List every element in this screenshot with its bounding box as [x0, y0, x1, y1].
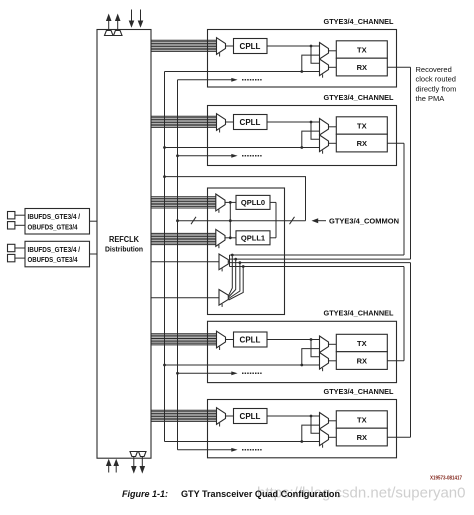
wire: CH4 TX mux output	[329, 420, 337, 422]
block: QPLL1	[236, 231, 270, 245]
svg-text:CPLL: CPLL	[240, 412, 261, 421]
CH1 RX mux select stub	[322, 74, 324, 77]
wire: CH1 internal clock arrow (solid)	[178, 79, 232, 81]
mux: upper clock distribution mux	[219, 254, 228, 270]
node: QPLL vertical to common return junction	[163, 175, 166, 178]
CH2 box	[208, 106, 397, 166]
svg-text:CPLL: CPLL	[240, 335, 261, 344]
wire: CH3 RX mux output	[329, 360, 337, 362]
svg-text:TX: TX	[357, 415, 367, 424]
mux: CH4 RX clock mux	[320, 429, 329, 446]
wire: clock line to CH3 RX (recovered clock)	[230, 266, 405, 268]
block: CH3 CPLL	[234, 332, 268, 347]
wire: CH3 TX mux output	[329, 343, 337, 345]
svg-text:GTYE3/4_CHANNEL: GTYE3/4_CHANNEL	[324, 387, 394, 396]
channel block CH4	[151, 387, 397, 458]
svg-text:CPLL: CPLL	[240, 42, 261, 51]
block: CH3 TX	[336, 334, 387, 351]
buffer: northbound refclk driver 2	[114, 31, 123, 36]
wire: CH2 internal clock arrow (solid)	[178, 155, 232, 157]
block: CH4 CPLL	[234, 409, 268, 424]
buffer: northbound refclk driver 1	[105, 31, 114, 36]
mux: CH1 RX clock mux	[320, 59, 329, 76]
svg-text:GTYE3/4_CHANNEL: GTYE3/4_CHANNEL	[324, 17, 394, 26]
CH4 CPLL mux select stub	[219, 423, 221, 426]
CH3 box	[208, 321, 397, 382]
wire: CH2 TX mux output	[329, 126, 337, 128]
mux: CH1 CPLL reference clock mux	[217, 38, 226, 55]
wire: CH3 CPLL branch down to RX mux	[311, 340, 320, 357]
svg-text:directly from: directly from	[416, 84, 457, 93]
upper distribution mux select stub	[221, 268, 223, 271]
node: CH1 QPLL clock junction	[300, 70, 303, 73]
svg-text:RX: RX	[357, 139, 367, 148]
wire: clock line to CH2 RX (recovered clock)	[230, 254, 405, 256]
wire: QPLL0 refclk bus (7 lines)	[151, 197, 216, 208]
wire: QPLL clock distribution vertical (feeds all channel QPLL inputs)	[164, 72, 166, 442]
svg-text:GTYE3/4_COMMON: GTYE3/4_COMMON	[329, 217, 399, 226]
mux: CH2 RX clock mux	[320, 135, 329, 152]
wire: CH4 CPLL refclk bus (7 lines)	[151, 410, 217, 421]
arrow: southbound refclk in 2	[140, 10, 142, 22]
wire: clock line to CH4 RX (recovered clock)	[230, 262, 411, 264]
pad: refclk pin 2b	[8, 254, 15, 261]
wire: lower distribution mux output fan	[229, 255, 233, 296]
block: CH1 RX	[336, 58, 387, 76]
wire: CH4 CPLL output to clock mux	[267, 415, 320, 417]
svg-text:TX: TX	[357, 339, 367, 348]
mux: CH4 CPLL reference clock mux	[217, 408, 226, 425]
wire: CH3 refclk mux output to CPLL	[226, 339, 234, 341]
wire: CH4 QPLL branch up to TX mux	[302, 425, 320, 441]
block: CH4 RX	[336, 428, 387, 446]
node: tie to QPLL output bus	[229, 219, 232, 222]
wire: CH3 QPLL branch up to TX mux	[302, 349, 320, 365]
bus-width slash 2	[290, 217, 295, 224]
CH2 RX mux select stub	[322, 150, 324, 153]
CH4 box	[208, 400, 397, 458]
wire: CH2 QPLL branch up to TX mux	[302, 131, 320, 147]
wire: CH4 refclk mux output to CPLL	[226, 415, 234, 417]
arrow: southbound refclk out (bottom) 1	[133, 457, 135, 467]
QPLL1 mux select stub	[218, 245, 220, 248]
wire: pad 2b to buffer	[15, 257, 25, 259]
arrow: northbound refclk in (bottom) 2	[115, 466, 117, 473]
node: CH1 CPLL clock junction	[310, 45, 313, 48]
channel block CH1	[151, 17, 397, 87]
svg-text:QPLL0: QPLL0	[241, 198, 265, 207]
mux: CH2 CPLL reference clock mux	[217, 114, 226, 131]
CH3 RX mux select stub	[322, 368, 324, 371]
wire: north clock input to upper distribution mux	[151, 261, 219, 263]
wire: QPLL output return line to distribution vertical	[165, 177, 306, 221]
QPLL0 mux select stub	[218, 210, 220, 213]
svg-text:IBUFDS_GTE3/4 /: IBUFDS_GTE3/4 /	[28, 212, 81, 221]
wire: south clock input to lower distribution mux	[151, 297, 219, 299]
wire: CH2 internal clock dashed continuation	[242, 155, 262, 157]
wire: CH1 CPLL output to clock mux	[267, 45, 320, 47]
arrow: southbound refclk out (bottom) 2	[141, 457, 143, 467]
wire: QPLL1 refclk bus (7 lines)	[151, 233, 216, 244]
pad: refclk pin 1b	[8, 222, 15, 229]
CH4 RX mux select stub	[322, 444, 324, 447]
wire: CH1 CPLL branch down to RX mux	[311, 46, 320, 63]
node: clock vertical to common bus junction	[176, 219, 179, 222]
pad: refclk pin 1a	[8, 212, 15, 219]
wire: CH2 CPLL output to clock mux	[267, 121, 320, 123]
arrowhead: CH4 internal clock arrow	[231, 448, 237, 452]
wire: pad 2a to buffer	[15, 247, 25, 249]
svg-text:IBUFDS_GTE3/4 /: IBUFDS_GTE3/4 /	[28, 245, 81, 254]
wire: CH4 RX mux output	[329, 436, 337, 438]
block: CH1 TX	[336, 41, 387, 58]
node: clock vertical to CH3 junction	[176, 372, 179, 375]
arrowhead: CH3 internal clock arrow	[231, 371, 237, 375]
arrowhead: CH1 internal clock arrow	[231, 78, 237, 82]
wire: CH1 QPLL clock input line	[165, 71, 320, 73]
arrowhead: CH2 internal clock arrow	[231, 154, 237, 158]
block: REFCLK Distribution	[97, 30, 151, 459]
wire: pad 1a to buffer	[15, 214, 25, 216]
wire: CH4 CPLL branch down to RX mux	[311, 416, 320, 433]
CH1 box	[208, 30, 397, 88]
wire: buffer 1 to REFCLK distribution	[90, 220, 98, 222]
arrow: northbound refclk out 1	[108, 20, 110, 31]
wire: QPLL output bus (to distribution verticals)	[178, 220, 306, 222]
wire: CH2 RX mux output	[329, 142, 337, 144]
wire: CH4 QPLL clock input line	[165, 441, 320, 443]
wire: CH3 internal clock dashed continuation	[242, 372, 262, 374]
block: QPLL0	[236, 195, 270, 209]
svg-text:GTY Transceiver Quad Configura: GTY Transceiver Quad Configuration	[181, 489, 340, 499]
svg-text:Distribution: Distribution	[105, 245, 143, 254]
bus-width slash 1	[191, 217, 196, 224]
buffer: southbound refclk driver 2 (bottom)	[139, 452, 147, 457]
lower distribution mux select stub	[221, 304, 223, 307]
mux: QPLL1 reference clock mux	[216, 229, 225, 246]
node: CH4 QPLL clock junction	[300, 440, 303, 443]
svg-text:the PMA: the PMA	[416, 94, 445, 103]
wire: CH4 internal clock arrow (solid)	[178, 449, 232, 451]
wire: CH3 internal clock arrow (solid)	[178, 372, 232, 374]
arrow: southbound refclk in 1	[131, 10, 133, 22]
arrow: northbound refclk out 2	[117, 20, 119, 31]
svg-text:OBUFDS_GTE3/4: OBUFDS_GTE3/4	[28, 222, 79, 231]
node: tie to QPLL0 input	[229, 201, 232, 204]
svg-text:TX: TX	[357, 121, 367, 130]
node: QPLL vertical to CH3 junction	[163, 364, 166, 367]
wire: CH2 CPLL branch down to RX mux	[311, 122, 320, 139]
wire: pad 1b to buffer	[15, 224, 25, 226]
svg-text:QPLL1: QPLL1	[241, 234, 265, 243]
mux: lower clock distribution mux	[219, 290, 228, 306]
svg-text:TX: TX	[357, 45, 367, 54]
svg-text:CPLL: CPLL	[240, 118, 261, 127]
node: tie to QPLL1 input	[229, 236, 232, 239]
node: CH4 CPLL clock junction	[310, 415, 313, 418]
wire: QPLL refclk tie vertical	[229, 202, 231, 237]
block: CH3 RX	[336, 352, 387, 370]
wire: CH3 CPLL output to clock mux	[267, 339, 320, 341]
wire: CH1 TX mux output	[329, 50, 337, 52]
arrow: northbound refclk in (bottom) 1	[108, 466, 110, 473]
svg-text:RX: RX	[357, 356, 367, 365]
wire: CH1 internal clock dashed continuation	[242, 79, 262, 81]
mux: CH4 TX clock mux	[320, 413, 329, 430]
node: CH3 QPLL clock junction	[300, 364, 303, 367]
wire: CH2 QPLL clock input line	[165, 147, 320, 149]
block: CH2 RX	[336, 134, 387, 152]
channel block CH3	[151, 309, 397, 383]
svg-text:Recovered: Recovered	[416, 65, 452, 74]
svg-text:RX: RX	[357, 63, 367, 72]
wire: QPLL0/QPLL1 output join vertical	[275, 202, 277, 237]
block: CH2 TX	[336, 117, 387, 134]
wire: QPLL1 output	[270, 237, 276, 239]
block: CH1 CPLL	[234, 39, 268, 54]
wire: CH1 refclk mux output to CPLL	[226, 45, 234, 47]
CH2 CPLL mux select stub	[219, 129, 221, 132]
svg-text:clock routed: clock routed	[416, 75, 456, 84]
wire: CH2 refclk mux output to CPLL	[226, 121, 234, 123]
wire: CH1 RX mux output	[329, 66, 337, 68]
channel block CH2	[151, 93, 397, 166]
block: CH4 TX	[336, 411, 387, 428]
block: IBUFDS/OBUFDS pair 2	[25, 241, 90, 266]
arrow: GTYE3/4_COMMON label pointer	[316, 220, 326, 222]
wire: QPLL0 refclk mux output	[225, 201, 236, 203]
mux: CH3 CPLL reference clock mux	[217, 331, 226, 348]
svg-text:RX: RX	[357, 433, 367, 442]
block: CH2 CPLL	[234, 115, 268, 130]
wire: QPLL0 output	[270, 201, 276, 203]
wire: upper mux output fan bar	[228, 255, 229, 262]
mux: QPLL0 reference clock mux	[216, 194, 225, 211]
block: IBUFDS/OBUFDS pair 1	[25, 209, 90, 235]
block: GTYE3/4_COMMON box	[208, 188, 285, 315]
mux: CH2 TX clock mux	[320, 119, 329, 136]
wire: CH3 CPLL refclk bus (7 lines)	[151, 334, 217, 345]
node: CH2 CPLL clock junction	[310, 121, 313, 124]
svg-text:GTYE3/4_CHANNEL: GTYE3/4_CHANNEL	[324, 309, 394, 318]
mux: CH1 TX clock mux	[320, 43, 329, 60]
wire: QPLL1 refclk mux output	[225, 237, 236, 239]
wire: clock line to CH1 RX (recovered clock)	[230, 258, 411, 260]
svg-text:X19573-081417: X19573-081417	[430, 476, 462, 482]
wire: CH2 CPLL refclk bus (7 lines)	[151, 116, 217, 127]
node: clock vertical to CH2 junction	[176, 154, 179, 157]
mux: CH3 RX clock mux	[320, 353, 329, 370]
buffer: southbound refclk driver 1 (bottom)	[130, 452, 138, 457]
svg-text:GTYE3/4_CHANNEL: GTYE3/4_CHANNEL	[324, 93, 394, 102]
node: CH2 QPLL clock junction	[300, 146, 303, 149]
wire: internal clock distribution vertical (feeds channel dashed arrows)	[177, 80, 179, 450]
CH3 CPLL mux select stub	[219, 347, 221, 350]
mux: CH3 TX clock mux	[320, 336, 329, 353]
wire: buffer 2 to REFCLK distribution	[90, 253, 98, 255]
CH1 CPLL mux select stub	[219, 53, 221, 56]
wire: CH1 CPLL refclk bus (7 lines)	[151, 40, 217, 51]
node: CH3 CPLL clock junction	[310, 338, 313, 341]
wire: CH4 internal clock dashed continuation	[242, 449, 262, 451]
svg-text:REFCLK: REFCLK	[109, 235, 139, 244]
svg-text:Figure 1-1:: Figure 1-1:	[122, 489, 168, 499]
wire: CH1 QPLL branch up to TX mux	[302, 55, 320, 71]
svg-text:OBUFDS_GTE3/4: OBUFDS_GTE3/4	[28, 255, 79, 264]
pad: refclk pin 2a	[8, 244, 15, 251]
wire: CH3 QPLL clock input line	[165, 364, 320, 366]
node: QPLL vertical to CH2 junction	[163, 146, 166, 149]
